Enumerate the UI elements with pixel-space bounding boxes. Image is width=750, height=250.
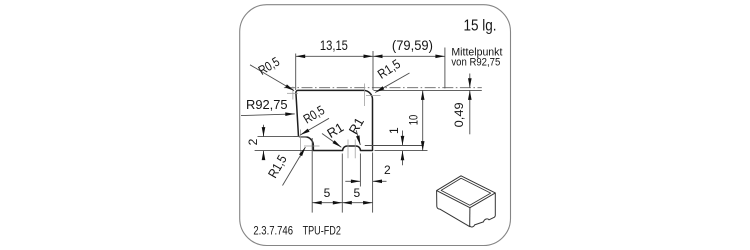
svg-text:15 lg.: 15 lg. <box>464 18 497 35</box>
dimension 13,15 <box>296 37 373 58</box>
center mark, concave fillet R1,5 <box>304 145 320 147</box>
extension line, rib left base <box>341 154 343 213</box>
extension line, rib right base <box>359 154 361 187</box>
extension line, ledge level (left) <box>258 136 300 138</box>
leader R0,5 (ledge corner) <box>300 102 330 136</box>
leader R92,75 (left edge arc) <box>241 97 295 116</box>
svg-text:von R92,75: von R92,75 <box>451 57 500 69</box>
leader R1,5 (top-right corner) <box>374 56 409 94</box>
center mark, top-right corner radius R1,5 <box>365 84 381 107</box>
extension line, rib top level (right) <box>365 145 424 147</box>
extension line, bottom level (left) <box>255 150 313 152</box>
dimension 2 (rib to right edge) <box>345 163 391 183</box>
dimension 2 (ledge step height, left) <box>246 125 265 160</box>
svg-text:0,49: 0,49 <box>452 102 466 127</box>
svg-text:5: 5 <box>354 186 361 200</box>
leader R1 (rib left fillet) <box>322 119 346 148</box>
svg-text:1: 1 <box>387 127 401 134</box>
center mark, top-left corner radius R0,5 <box>287 87 298 100</box>
leader R1,5 (concave fillet, bottom-left) <box>265 146 307 185</box>
leader R0,5 (top-left corner) <box>250 54 295 92</box>
dimension 1 (rib height) <box>387 127 404 165</box>
dimension 10 <box>407 90 425 150</box>
svg-text:2: 2 <box>384 163 391 177</box>
svg-text:2.3.7.746: 2.3.7.746 <box>253 226 293 238</box>
svg-text:5: 5 <box>324 186 331 200</box>
extension line, profile left edge (top) <box>295 54 297 91</box>
center mark, ledge corner radius R0,5 <box>294 130 308 158</box>
svg-text:(79,59): (79,59) <box>392 37 433 53</box>
svg-text:2: 2 <box>246 138 260 145</box>
svg-text:TPU-FD2: TPU-FD2 <box>303 226 341 238</box>
isometric view of profile block <box>437 176 496 227</box>
dimension 5 (left) and 5 (right) <box>312 186 372 205</box>
dimension (79,59) <box>373 37 445 58</box>
dimension 0,49 with Mittelpunkt pointer arrow <box>452 74 472 135</box>
rounded card frame <box>240 5 511 246</box>
top surface reference line (thin solid, right of profile) <box>374 89 482 91</box>
extension line, bottom level (right) <box>375 150 428 152</box>
note Mittelpunkt von R92,75 <box>451 46 502 68</box>
leader R1 (rib right fillet) <box>346 115 367 146</box>
svg-text:13,15: 13,15 <box>320 37 348 53</box>
profile cross-section outline <box>296 90 373 150</box>
extension line, center point of R92,75 <box>444 48 446 89</box>
svg-text:R92,75: R92,75 <box>246 97 288 112</box>
center marks, bottom rib fillets R1 <box>348 140 355 159</box>
extension line, profile right edge (bottom) <box>372 153 374 213</box>
horizontal dash-dot centerline through R92,75 arc reference <box>284 87 482 89</box>
extension line, profile right edge (top) <box>372 51 374 90</box>
svg-text:10: 10 <box>407 115 421 126</box>
extension line, profile bottom-left corner <box>311 138 313 213</box>
